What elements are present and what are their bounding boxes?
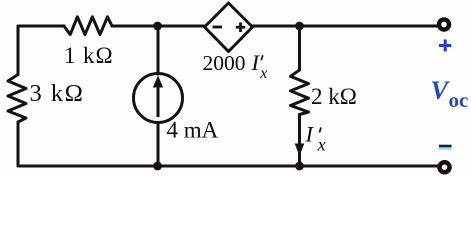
svg-text:2 kΩ: 2 kΩ — [311, 84, 357, 109]
wire diamond right vertex to top-right terminal — [253, 25, 439, 28]
wire right branch top (node to R3) — [298, 26, 301, 70]
terminal top-right open circle — [439, 20, 449, 30]
current source I1 arrow (up) — [153, 76, 163, 118]
wire top-left segment (corner to R1) — [18, 25, 64, 28]
wire left branch vertical (top corner down to R2) — [17, 26, 20, 75]
svg-text:1 kΩ: 1 kΩ — [64, 43, 113, 68]
svg-text:V: V — [431, 75, 451, 105]
junction dot node D (bottom right) — [295, 162, 304, 171]
wire middle branch top (node to current source) — [157, 26, 160, 74]
terminal bottom-right open circle — [440, 162, 450, 172]
resistor R1 1k zigzag — [64, 17, 112, 35]
label - terminal polarity — [439, 146, 452, 149]
svg-text:Ix: Ix — [305, 122, 326, 155]
junction dot node A (top middle) — [153, 22, 162, 31]
wire left branch vertical (R2 to bottom corner) — [17, 122, 20, 166]
junction dot node B (top right) — [295, 22, 304, 31]
svg-text:4 mA: 4 mA — [167, 118, 219, 143]
wire right branch bottom (R3 to bottom rail) — [298, 115, 301, 167]
prime tick of 2000 Ix label — [261, 55, 263, 60]
svg-text:oc: oc — [449, 88, 469, 112]
prime tick of Ix label — [319, 128, 321, 133]
wire middle branch bottom (current source to bottom rail) — [157, 123, 160, 167]
plus sign inside diamond — [236, 23, 245, 33]
wire R1 to diamond left vertex (node at top middle) — [112, 25, 205, 28]
current source I1 circle — [134, 74, 183, 123]
resistor R2 3k zigzag — [8, 75, 26, 123]
label + terminal polarity — [439, 40, 451, 52]
current arrow Ix (down) on right branch — [295, 144, 305, 157]
wire bottom rail — [18, 165, 438, 168]
junction dot node C (bottom middle) — [153, 162, 162, 171]
dependent source U1 diamond outline — [205, 3, 253, 52]
svg-text:3 kΩ: 3 kΩ — [30, 80, 85, 107]
svg-text:2000 Ix: 2000 Ix — [203, 50, 268, 82]
minus sign inside diamond — [213, 26, 223, 29]
resistor R3 2k zigzag — [291, 70, 309, 115]
